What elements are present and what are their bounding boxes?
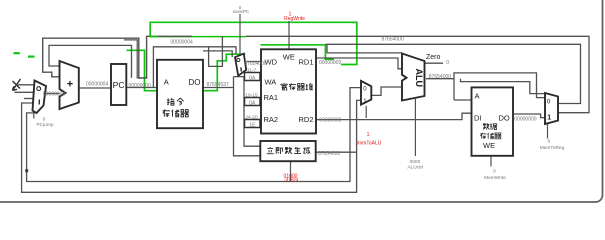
wire PC input drop	[124, 40, 141, 78]
wire ALU result lower branch	[461, 79, 546, 94]
wire ALU result up branch to mux	[454, 73, 545, 100]
svg-text:87654000: 87654000	[245, 61, 267, 67]
wire ALUctrl stub	[414, 99, 416, 156]
wire MemToReg select stub	[547, 124, 549, 139]
svg-text:11-7: 11-7	[247, 67, 257, 73]
wire green RegWrite loop top	[150, 22, 357, 64]
svg-text:0000: 0000	[410, 159, 421, 165]
svg-text:1: 1	[547, 115, 551, 122]
svg-text:MemWrite: MemWrite	[484, 175, 506, 181]
svg-text:A: A	[164, 78, 169, 87]
svg-text:0: 0	[547, 139, 550, 145]
mux M1 PCjump	[33, 81, 47, 114]
svg-text:00000004: 00000004	[43, 91, 65, 97]
svg-text:RA2: RA2	[264, 115, 279, 124]
svg-text:24-20: 24-20	[245, 114, 258, 120]
wire PCjump select stub	[33, 111, 35, 119]
data memory box	[472, 87, 514, 155]
wire bus 87654000 top	[246, 36, 589, 112]
svg-text:19-15: 19-15	[245, 93, 258, 99]
wire PC+4 feedback loop outer	[43, 36, 192, 78]
svg-text:1: 1	[367, 132, 370, 138]
register file box	[261, 49, 316, 133]
wire into savePC mux	[203, 51, 232, 57]
svg-text:0: 0	[493, 169, 496, 175]
wire RegWrite pin stub	[288, 21, 290, 49]
svg-text:RA1: RA1	[264, 93, 279, 102]
wire adder to PC	[79, 87, 111, 89]
wire PC feedback loop inner	[49, 45, 132, 78]
svg-text:87654000: 87654000	[318, 151, 340, 157]
svg-text:WA: WA	[265, 78, 277, 87]
svg-text:0: 0	[547, 98, 551, 105]
svg-text:ALU: ALU	[414, 69, 424, 88]
wire ALU result to data memory A	[454, 99, 472, 101]
wire RD2 bus to data memory DI	[316, 113, 472, 119]
PC register	[111, 64, 126, 105]
wire RD1 to ALU A	[316, 58, 402, 69]
svg-text:RD2: RD2	[299, 115, 314, 124]
wire instruction fanout vertical	[234, 77, 261, 156]
wire mux B in1 riser	[22, 100, 361, 192]
svg-text:ImmToALU: ImmToALU	[357, 140, 382, 146]
wire into PCjump mux mid	[15, 91, 34, 93]
svg-text:00000004: 00000004	[171, 40, 193, 46]
svg-text:87654537: 87654537	[207, 82, 229, 88]
label data memory chars	[480, 133, 486, 139]
svg-text:00000004: 00000004	[86, 82, 108, 88]
svg-text:00000000: 00000000	[129, 83, 151, 89]
immediate generator box	[260, 141, 315, 161]
bit slice 11-7	[245, 73, 261, 81]
wire green instr mem right segment	[203, 54, 245, 90]
wire mux B in0 riser	[27, 88, 361, 182]
label immediate generate	[267, 147, 274, 154]
svg-text:DO: DO	[189, 78, 201, 87]
label register file	[281, 83, 288, 90]
wire savePC mux to WD	[247, 61, 262, 63]
svg-text:1E: 1E	[249, 122, 256, 128]
wire savePC select stub	[239, 14, 241, 54]
wire PC value loop to savePC mux	[153, 47, 236, 88]
wire into PCjump mux upper	[16, 84, 34, 86]
svg-text:87654000: 87654000	[429, 74, 451, 80]
wire bus into ALU top	[327, 44, 402, 53]
wire PC to instruction memory	[126, 87, 157, 89]
svg-text:JUBSI: JUBSI	[284, 178, 298, 184]
svg-text:0A: 0A	[249, 100, 256, 106]
input pin arrow glyph	[13, 79, 21, 91]
svg-text:A: A	[475, 92, 480, 101]
svg-text:0: 0	[43, 117, 46, 123]
wire green horizontal segment y37	[150, 36, 246, 38]
bit slice 19-15	[245, 98, 261, 106]
svg-text:RegWrite: RegWrite	[284, 16, 305, 22]
svg-text:DI: DI	[474, 114, 482, 123]
svg-text:MemToReg: MemToReg	[540, 145, 565, 151]
mux M3 ImmToALU	[361, 81, 371, 105]
svg-text:Zero: Zero	[426, 54, 441, 61]
wire instruction bus from DO	[203, 87, 234, 89]
wire Zero output	[425, 62, 443, 64]
svg-text:00000000: 00000000	[319, 118, 341, 124]
wire green register WE net	[261, 45, 335, 59]
wire PCjump mux out to adder	[46, 93, 60, 95]
wire immediate generator lower output	[290, 161, 292, 181]
svg-text:0A: 0A	[249, 75, 256, 81]
wire bitslice3 stub	[243, 123, 246, 125]
ALU	[402, 54, 425, 101]
wire MemWrite stub	[490, 156, 492, 167]
wire green clock dash 1	[14, 52, 20, 54]
label cun chu qi (memory)	[163, 109, 171, 116]
svg-text:RD1: RD1	[299, 57, 314, 66]
bit slice 24-20	[245, 120, 261, 128]
svg-text:PCjump: PCjump	[36, 122, 53, 128]
wire instruction fanout to bit slices	[234, 77, 261, 147]
wire imm out	[316, 151, 357, 153]
svg-text:0: 0	[446, 60, 449, 66]
wire mux B out to ALU	[371, 87, 402, 95]
wire green clock dash 2	[28, 55, 35, 57]
svg-text:WE: WE	[483, 141, 495, 150]
svg-text:WE: WE	[283, 53, 295, 62]
svg-text:savePC: savePC	[233, 9, 250, 15]
wire green overlay segment left	[150, 36, 158, 38]
wire writeback bus	[325, 44, 580, 103]
mux M4 MemToReg	[545, 93, 558, 124]
wire into PCjump mux lower	[24, 98, 33, 100]
svg-text:ALUctrl: ALUctrl	[407, 164, 423, 170]
svg-text:PC: PC	[113, 80, 125, 90]
svg-text:00000000: 00000000	[514, 116, 536, 122]
wire ImmToALU select stub	[365, 106, 367, 118]
svg-text:+: +	[67, 79, 73, 91]
svg-text:DO: DO	[499, 114, 510, 123]
adder	[60, 61, 79, 109]
wire bitslice2 stub	[243, 101, 246, 103]
label zhi ling (instruction)	[167, 98, 174, 105]
mux M2 savePC tilted	[235, 54, 246, 76]
svg-text:87654000: 87654000	[382, 37, 404, 43]
junction dot bottom left	[25, 169, 28, 172]
wire jog near savePC mux	[209, 36, 223, 66]
wire data memory DO to mux	[513, 114, 545, 118]
label shu ju (data)	[483, 123, 490, 129]
wire ALU result	[426, 78, 454, 80]
svg-text:00000000: 00000000	[319, 60, 341, 66]
wire green PC clock branch	[127, 50, 158, 90]
instruction memory box	[157, 60, 203, 128]
